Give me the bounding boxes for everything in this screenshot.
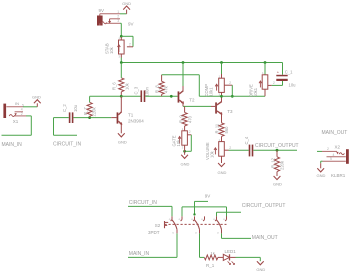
wire 9V rail bbox=[121, 62, 282, 64]
ground GND at LED bbox=[256, 261, 265, 272]
junction R12 bbox=[276, 149, 279, 152]
jack X2 pin 2 bbox=[322, 147, 337, 151]
switch S2 actuator bbox=[165, 221, 169, 228]
svg-text:C_2: C_2 bbox=[62, 104, 67, 112]
transistor T2 collector bbox=[179, 63, 183, 94]
transistor T1 base pin bbox=[111, 117, 116, 119]
wire rail to DRIVE bbox=[264, 63, 266, 75]
svg-text:GND: GND bbox=[181, 161, 190, 166]
trimmer COMP value bbox=[208, 87, 213, 97]
ground GND at GATE bbox=[181, 151, 190, 166]
wire stab to rail bbox=[120, 58, 122, 63]
net label CIRCUIT_OUTPUT bottom bbox=[242, 203, 286, 209]
capacitor C_1 value bbox=[289, 83, 297, 88]
battery minus squiggle bbox=[100, 22, 107, 26]
svg-text:3: 3 bbox=[117, 19, 119, 23]
LED LED1 bbox=[223, 254, 229, 260]
capacitor C_2 plates bbox=[69, 112, 74, 123]
jack X1 pin 5 tip bbox=[6, 101, 24, 107]
transistor T2 emitter bbox=[179, 100, 184, 106]
wire R8 top run bbox=[162, 75, 222, 97]
svg-text:GND: GND bbox=[118, 140, 127, 145]
svg-text:R_7: R_7 bbox=[83, 107, 88, 115]
net label MAIN_IN bottom bbox=[129, 251, 150, 257]
svg-text:GND: GND bbox=[317, 173, 326, 178]
svg-text:220k: 220k bbox=[280, 160, 285, 170]
wire switch to R1 bbox=[200, 233, 205, 257]
svg-text:10k: 10k bbox=[124, 82, 129, 90]
svg-text:2: 2 bbox=[117, 15, 119, 19]
wire CIRCUIT_IN to switch bbox=[128, 206, 172, 216]
svg-text:2: 2 bbox=[229, 146, 231, 150]
trimmer COMP pin marks bbox=[219, 74, 221, 96]
resistor R_7 value bbox=[92, 107, 97, 117]
wire R7 top to collector node bbox=[90, 95, 122, 97]
resistor R_12 value bbox=[280, 160, 285, 170]
resistor R_6 bbox=[119, 63, 124, 97]
resistor R_6 name bbox=[112, 82, 117, 90]
trimmer GATE pin marks bbox=[182, 127, 184, 150]
net label CIRCUIT_OUTPUT mid bbox=[255, 143, 299, 149]
wire 9V to switch bbox=[193, 201, 208, 215]
jack X2 pin 5 bbox=[323, 157, 346, 161]
switch S2 value bbox=[148, 230, 160, 235]
LED arrows bbox=[228, 261, 235, 264]
resistor R_12 bbox=[274, 150, 279, 176]
wire tip to gnd bbox=[23, 106, 37, 108]
capacitor C_4 name bbox=[244, 136, 249, 144]
svg-text:LED1: LED1 bbox=[225, 249, 237, 254]
wire C1 bottom bbox=[282, 81, 284, 85]
jack X1 sleeve bar bbox=[3, 104, 6, 118]
connector pin 2 bbox=[110, 15, 120, 19]
svg-text:R_9: R_9 bbox=[178, 115, 183, 123]
trimmer DRIVE value bbox=[253, 87, 258, 97]
resistor R_7 bbox=[87, 96, 92, 117]
wire CIRCUIT_OUTPUT to switch bbox=[217, 212, 242, 216]
capacitor C_3 plates bbox=[141, 90, 146, 102]
svg-text:10k: 10k bbox=[109, 46, 114, 54]
svg-text:MAIN_OUT: MAIN_OUT bbox=[322, 130, 348, 136]
trimmer COMP bottom pin bbox=[221, 92, 223, 96]
capacitor C_3 name bbox=[134, 86, 139, 94]
jack X2 name bbox=[335, 145, 341, 150]
junction T2 base bbox=[170, 95, 173, 98]
trimmer COMP arrow bbox=[215, 84, 218, 90]
trimmer STAB arrow bbox=[118, 45, 121, 52]
resistor R_11 name bbox=[214, 123, 219, 133]
wire X2 to gnd bbox=[321, 161, 323, 168]
svg-text:CIRCUIT_IN: CIRCUIT_IN bbox=[53, 141, 81, 147]
jack X1 switch bbox=[9, 113, 17, 116]
resistor R_11 value bbox=[224, 126, 229, 134]
wire stub MAIN_OUT bbox=[317, 150, 322, 152]
trimmer DRIVE wiper bbox=[268, 81, 275, 85]
svg-text:10k1: 10k1 bbox=[208, 87, 213, 97]
trimmer VOLUME bbox=[219, 142, 225, 157]
trimmer GATE name bbox=[171, 135, 176, 146]
resistor R_6 value bbox=[124, 82, 129, 90]
wire C3 to T2 base bbox=[145, 95, 177, 97]
battery pin 1 wire bbox=[100, 14, 120, 16]
wire rail to COMP bbox=[221, 63, 223, 79]
trimmer VOLUME value bbox=[209, 150, 214, 158]
trimmer VOLUME pin marks bbox=[219, 138, 221, 142]
svg-text:GND: GND bbox=[218, 170, 227, 175]
wire node to DRIVE bbox=[222, 95, 266, 97]
trimmer VOLUME name bbox=[205, 142, 210, 160]
svg-text:220k: 220k bbox=[92, 107, 97, 117]
jack X1 pin 4 bbox=[15, 108, 23, 112]
switch contact arrow bbox=[108, 19, 111, 24]
junction rail 2 bbox=[182, 61, 185, 64]
svg-text:3PDT: 3PDT bbox=[148, 230, 160, 235]
resistor R_8 bbox=[159, 75, 164, 97]
trimmer GATE wiper bbox=[187, 130, 191, 135]
resistor R_12 name bbox=[271, 157, 276, 168]
junction COMP wiper bbox=[231, 95, 234, 98]
wire GATE wiper loop bbox=[185, 135, 192, 152]
wire T2 emitter to T3 base bbox=[183, 105, 215, 107]
svg-text:MAIN_OUT: MAIN_OUT bbox=[252, 235, 278, 241]
transistor T1 name bbox=[128, 112, 134, 117]
svg-text:C_3: C_3 bbox=[134, 86, 139, 94]
svg-text:GND: GND bbox=[256, 267, 265, 272]
trimmer COMP wiper bbox=[224, 81, 232, 85]
net label CIRCUIT_IN bottom bbox=[129, 200, 157, 206]
svg-text:MAIN_IN: MAIN_IN bbox=[2, 142, 23, 148]
resistor R_9 value bbox=[187, 115, 192, 123]
svg-text:CIRCUIT_OUTPUT: CIRCUIT_OUTPUT bbox=[242, 203, 286, 209]
jack X1 name bbox=[13, 119, 19, 124]
svg-text:GND: GND bbox=[122, 1, 131, 6]
svg-text:MAIN_IN: MAIN_IN bbox=[129, 251, 150, 257]
capacitor C_2 value bbox=[73, 104, 78, 112]
resistor R_11 bbox=[219, 123, 224, 142]
wire wiper to C1 bbox=[272, 84, 283, 86]
battery B1 9V label bbox=[99, 8, 105, 13]
svg-text:R_11: R_11 bbox=[214, 123, 219, 133]
transistor T3 name bbox=[227, 109, 233, 114]
wire circuit_in hook bbox=[54, 118, 78, 136]
wire node to C3 bbox=[121, 95, 140, 97]
pin number 1 bbox=[117, 10, 119, 14]
transistor T3 base bar bbox=[215, 102, 217, 113]
ground GND at X1 bbox=[32, 94, 41, 106]
jack X2 type label bbox=[331, 173, 346, 178]
wire COMP wiper down bbox=[231, 85, 233, 96]
LED LED1 name bbox=[225, 249, 237, 254]
wire LED to gnd bbox=[230, 257, 260, 261]
svg-text:2N3904: 2N3904 bbox=[128, 118, 144, 123]
wire R1 to LED bbox=[218, 256, 223, 258]
resistor R_8 name bbox=[154, 85, 159, 93]
trimmer COMP bbox=[219, 74, 225, 92]
junction GATE bottom bbox=[183, 145, 186, 153]
resistor R_8 value bbox=[164, 85, 169, 93]
trimmer DRIVE pin marks bbox=[262, 71, 264, 75]
switch S2 name bbox=[155, 223, 161, 228]
trimmer GATE arrow bbox=[178, 137, 181, 144]
net label CIRCUIT_IN bbox=[53, 141, 81, 147]
svg-text:470: 470 bbox=[187, 115, 192, 123]
transistor T3 emitter bbox=[217, 111, 222, 123]
wire pin1 to GND bbox=[120, 13, 127, 15]
trimmer GATE bbox=[182, 131, 188, 145]
svg-text:4: 4 bbox=[333, 153, 335, 157]
wire C4 to output bbox=[253, 149, 297, 151]
svg-text:9V: 9V bbox=[205, 194, 211, 199]
ground GND at T1 bbox=[118, 133, 127, 144]
wire 9V down bbox=[120, 23, 121, 36]
trimmer DRIVE arrow bbox=[259, 81, 262, 87]
svg-text:10k: 10k bbox=[209, 150, 214, 158]
wire rail corner to C1 bbox=[282, 63, 284, 75]
wire wiper to C4 bbox=[229, 149, 249, 151]
trimmer STAB R10 bbox=[119, 37, 125, 58]
trimmer DRIVE bbox=[262, 75, 268, 89]
svg-text:100n: 100n bbox=[144, 87, 149, 97]
resistor R_9 name bbox=[178, 115, 183, 123]
switch S2 pole 2 bbox=[191, 216, 204, 234]
capacitor C_2 name bbox=[62, 104, 67, 112]
svg-text:C_4: C_4 bbox=[244, 136, 249, 144]
wire X1 to MAIN_IN bbox=[2, 116, 32, 135]
svg-text:2: 2 bbox=[229, 81, 231, 85]
resistor R_1 bbox=[204, 255, 218, 260]
svg-text:5: 5 bbox=[330, 157, 332, 161]
svg-text:1: 1 bbox=[117, 10, 119, 14]
svg-text:CIRCUIT_IN: CIRCUIT_IN bbox=[129, 200, 157, 206]
svg-text:R_8: R_8 bbox=[154, 85, 159, 93]
transistor T1 emitter bbox=[118, 121, 122, 133]
resistor R_1 name bbox=[206, 263, 215, 268]
ground GND top bbox=[122, 1, 131, 14]
svg-text:9V: 9V bbox=[99, 8, 105, 13]
svg-text:KLBR1: KLBR1 bbox=[331, 173, 346, 178]
trimmer STAB pin marks bbox=[118, 36, 120, 58]
svg-text:4: 4 bbox=[21, 108, 23, 112]
svg-text:T3: T3 bbox=[227, 109, 233, 114]
trimmer VOLUME arrow bbox=[214, 148, 217, 155]
resistor R_1 value bbox=[211, 250, 215, 255]
junction COMP bottom bbox=[220, 95, 223, 98]
junction T1 collector node bbox=[120, 95, 123, 98]
jack X1 pin 2 bbox=[15, 112, 26, 116]
trimmer GATE value bbox=[176, 139, 181, 147]
wire MAIN_OUT from switch bbox=[222, 233, 252, 238]
junction rail 1 bbox=[120, 61, 123, 64]
net label MAIN_OUT bottom bbox=[252, 235, 278, 241]
svg-text:C_1: C_1 bbox=[285, 70, 293, 75]
trimmer STAB wiper bbox=[127, 42, 133, 46]
svg-text:10k: 10k bbox=[176, 139, 181, 147]
svg-text:GND: GND bbox=[273, 182, 282, 187]
svg-text:10u: 10u bbox=[73, 104, 78, 112]
net label MAIN_OUT right bbox=[322, 130, 348, 136]
svg-text:10u: 10u bbox=[289, 83, 297, 88]
junction base node T1 bbox=[88, 116, 91, 119]
jack X2 switch bbox=[336, 152, 344, 155]
trimmer STAB name bbox=[104, 43, 109, 54]
wire MAIN_IN to switch bbox=[128, 233, 177, 257]
trimmer VOLUME wiper bbox=[224, 146, 231, 150]
wire stab wiper loop bbox=[121, 36, 133, 47]
battery B1 bbox=[97, 16, 103, 26]
svg-text:R_6: R_6 bbox=[112, 82, 117, 90]
jack X2 sleeve bar bbox=[346, 149, 349, 164]
trimmer DRIVE name bbox=[248, 84, 253, 97]
switch S2 pole 3 bbox=[213, 216, 226, 234]
junction rail 4 bbox=[264, 61, 267, 64]
svg-text:2: 2 bbox=[21, 112, 23, 116]
jack X2 pin 4 bbox=[327, 153, 346, 157]
capacitor C_1 plus bbox=[277, 70, 280, 75]
svg-text:2: 2 bbox=[129, 42, 131, 46]
svg-text:T1: T1 bbox=[128, 112, 134, 117]
transistor T2 name bbox=[189, 98, 195, 103]
net label 9V bottom bbox=[205, 194, 211, 199]
trimmer COMP name bbox=[204, 84, 209, 97]
svg-text:2: 2 bbox=[273, 81, 275, 85]
capacitor C_1 name bbox=[285, 70, 293, 75]
transistor T1 collector bbox=[118, 96, 121, 115]
resistor R_9 bbox=[182, 106, 187, 130]
junction rail 3 bbox=[220, 61, 223, 64]
trimmer DRIVE bottom pin bbox=[264, 89, 266, 96]
net label 9V bbox=[128, 22, 134, 27]
svg-text:CIRCUIT_OUTPUT: CIRCUIT_OUTPUT bbox=[255, 143, 299, 149]
switch S2 pole 1 bbox=[169, 216, 182, 234]
svg-text:R_1: R_1 bbox=[206, 263, 215, 268]
svg-text:GND: GND bbox=[32, 94, 41, 99]
capacitor C_4 plates bbox=[249, 145, 254, 157]
svg-text:IN: IN bbox=[15, 101, 19, 106]
connector pin 3 bbox=[106, 19, 120, 23]
svg-text:X2: X2 bbox=[335, 145, 341, 150]
svg-text:2: 2 bbox=[327, 147, 329, 151]
wire bypass jumper bbox=[182, 207, 227, 217]
net label MAIN_IN bbox=[2, 142, 23, 148]
svg-text:47k: 47k bbox=[164, 85, 169, 93]
svg-text:10k1: 10k1 bbox=[253, 87, 258, 97]
svg-text:9V: 9V bbox=[128, 22, 134, 27]
node junction bbox=[120, 35, 123, 38]
svg-text:2: 2 bbox=[189, 130, 191, 134]
svg-text:S2: S2 bbox=[155, 223, 161, 228]
resistor R_7 name bbox=[83, 107, 88, 115]
svg-text:T2: T2 bbox=[189, 98, 195, 103]
transistor T1 base bar bbox=[117, 112, 119, 123]
ground GND at R12 bbox=[273, 176, 282, 187]
transistor T3 collector bbox=[217, 96, 222, 105]
switch S2 link bar bbox=[165, 223, 227, 225]
svg-text:1k: 1k bbox=[211, 250, 215, 255]
wire C2 to base node bbox=[73, 117, 111, 119]
capacitor C_1 plates bbox=[276, 75, 287, 81]
svg-text:560: 560 bbox=[224, 126, 229, 134]
capacitor C_3 value bbox=[144, 87, 149, 97]
transistor T2 base bar bbox=[178, 91, 180, 102]
trimmer STAB value bbox=[109, 46, 114, 54]
ground GND at X2 bbox=[317, 168, 326, 178]
svg-text:X1: X1 bbox=[13, 119, 19, 124]
transistor T1 value bbox=[128, 118, 144, 123]
svg-text:R_12: R_12 bbox=[271, 157, 276, 168]
ground GND at VOLUME bbox=[218, 156, 227, 175]
